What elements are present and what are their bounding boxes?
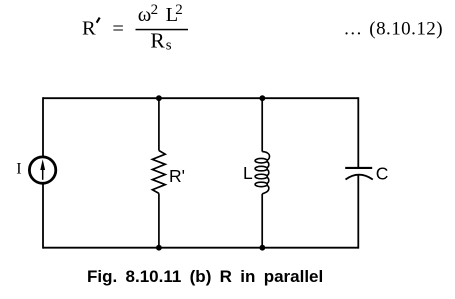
node bottom-right junction [259,245,265,251]
capacitor C top plate [345,167,372,169]
svg-text:Fig. 8.10.11 (b) R in parallel: Fig. 8.10.11 (b) R in parallel [87,267,323,286]
node top-left junction [156,95,162,101]
node bottom-left junction [156,245,162,251]
capacitor C curved plate [346,175,373,180]
svg-text:C: C [376,164,389,184]
svg-text:ω: ω [138,4,152,26]
resistor R' zigzag [152,151,165,194]
svg-text:L: L [243,163,253,183]
fraction bar [136,29,189,31]
wire top [43,97,358,99]
current source I1 arrow head [40,159,45,170]
wire resistor branch lower [158,193,160,247]
svg-text:R: R [150,29,165,53]
wire inductor branch lower [261,194,263,248]
current source I1 circle [29,157,55,183]
svg-text:2: 2 [151,2,159,18]
svg-text:R: R [82,18,96,40]
wire resistor branch upper [158,98,160,150]
wire right upper [357,97,359,168]
svg-text:(8.10.12): (8.10.12) [369,18,443,39]
node top-right junction [259,95,265,101]
svg-text:2: 2 [175,2,183,18]
svg-text:I: I [16,160,21,177]
wire right lower [357,175,359,249]
svg-text:…: … [344,19,363,39]
current source I1 arrow shaft [42,170,44,180]
wire left [42,97,44,248]
svg-text:R': R' [169,166,185,186]
inductor L coil [255,152,269,194]
wire inductor branch upper [261,98,263,151]
svg-text:=: = [112,18,124,40]
svg-text:s: s [166,38,172,54]
wire bottom [43,247,358,249]
prime mark on R [97,18,100,23]
